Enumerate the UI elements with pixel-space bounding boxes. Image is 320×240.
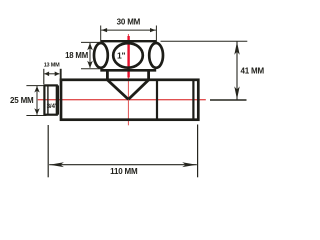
dimension 18 MM bottom arrow [87,61,93,68]
dimension 13 MM witness left [43,69,45,84]
svg-text:3/4": 3/4" [47,103,58,110]
dimension 30 MM witness left [100,26,102,42]
svg-text:41 MM: 41 MM [241,67,265,76]
red vertical centerline thin [127,34,129,125]
dimension 18 MM witness top [81,41,101,43]
dimension 25 MM witness top [26,85,44,87]
dimension 30 MM line [101,29,156,31]
left nipple [44,85,56,114]
svg-text:30 MM: 30 MM [117,18,141,27]
dimension 18 MM witness bottom [81,68,101,70]
right cap rim line [192,80,194,119]
valve main body [61,80,198,120]
funnel neck right side [128,70,148,99]
svg-text:110 MM: 110 MM [110,167,138,176]
dimension 13 MM witness right [60,69,62,81]
dimension 41 MM witness bottom [210,99,247,101]
knob top line [101,40,157,42]
dimension 30 MM right arrow [150,28,156,32]
dimension 110 MM right arrow [182,162,196,167]
dimension 41 MM top arrow [234,42,239,55]
dimension 13 MM left arrow [44,72,49,77]
dimension 25 MM bottom arrow [34,108,39,115]
dimension 41 MM witness top [161,40,248,42]
dimension 25 MM top arrow [34,86,39,93]
dimension 25 MM line [36,86,38,115]
dimension 25 MM witness bottom [26,115,46,117]
dimension 30 MM witness right [155,26,157,43]
dimension 110 MM line [49,164,197,166]
body joint line [156,80,158,119]
dimension 110 MM witness left [47,125,49,177]
svg-text:18 MM: 18 MM [65,51,88,60]
dimension 13 MM right arrow [55,72,60,77]
dimension 41 MM line [236,42,238,100]
nipple right face line [57,85,59,114]
nipple inner face line [47,85,49,114]
dimension 41 MM bottom arrow [234,86,239,99]
knob bottom line [100,69,156,72]
knob left end ellipse [94,43,108,68]
svg-text:1": 1" [117,50,126,60]
svg-text:13 MM: 13 MM [44,62,60,68]
dimension 13 MM line [44,73,59,75]
dimension 110 MM left arrow [50,162,64,167]
red horizontal centerline [38,99,206,101]
svg-text:25 MM: 25 MM [10,96,34,105]
knob middle ellipse [113,43,143,68]
dimension 110 MM witness right [197,125,199,178]
red vertical centerline thick segment [127,36,129,78]
knob right end ellipse [149,43,163,68]
body left face line [60,79,62,120]
dimension 18 MM top arrow [87,43,93,51]
dimension 18 MM line [89,43,91,68]
dimension 30 MM left arrow [102,28,108,32]
funnel neck left side [107,70,128,99]
